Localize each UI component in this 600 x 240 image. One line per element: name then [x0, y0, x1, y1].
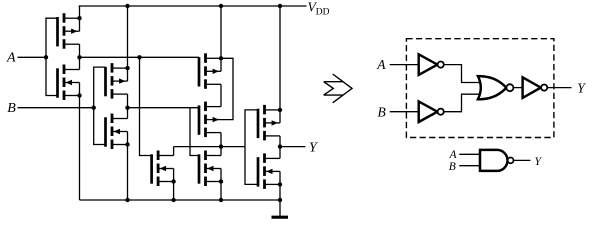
wire U1 output to NOR top input [444, 65, 479, 83]
junction P2 source-bulk junction [125, 66, 129, 70]
wire A to gates of P1/N1 [46, 18, 58, 95]
junction VDD-P2 tap [125, 4, 129, 8]
wire VDD drop to P2 source [127, 6, 129, 81]
wire node C to gates of P5/N5 [245, 110, 258, 184]
wire B to inverter U2 [390, 111, 419, 113]
junction A-bar branch junction [137, 55, 141, 59]
svg-text:B: B [378, 104, 386, 119]
wire VDD rail [79, 5, 307, 7]
wire B-bar branch down to N4 gate [190, 108, 199, 156]
wire U2 output to NOR bottom input [444, 94, 479, 112]
wire N1 source to ground [79, 83, 81, 201]
wire node C line [174, 146, 245, 148]
junction node B-bar [125, 106, 129, 110]
wire ground rail [80, 199, 281, 201]
junction P3 source-bulk junction [219, 56, 223, 60]
junction node Y [278, 144, 282, 148]
junction node B [92, 106, 96, 110]
wire Y output line (NAND) [514, 159, 531, 161]
wire P3 drain to P4 source [220, 84, 222, 106]
junction node A [44, 55, 48, 59]
wire A input lead [18, 56, 47, 58]
svg-text:Y: Y [577, 81, 586, 96]
junction N1 source-bulk junction [77, 93, 81, 97]
junction VDD-P3 tap [219, 4, 223, 8]
junction N2 source-bulk junction [125, 142, 129, 146]
wire P5 drain to Y to N5 drain [279, 136, 281, 159]
wire B to gates of P2/N2 [94, 67, 106, 144]
wire B-bar drain link P2-N2 [127, 94, 129, 118]
wire A to inverter U1 [390, 64, 419, 66]
wire A-bar branch down to N3 gate [140, 57, 152, 155]
wire B input lead [18, 107, 94, 109]
svg-text:B: B [7, 101, 16, 116]
wire VDD drop to P3 source [220, 6, 222, 71]
junction ground-N3 tap [171, 198, 175, 202]
wire A-bar drain link P1-N1 [79, 44, 81, 69]
transistor N4 (NMOS) [199, 151, 221, 187]
svg-text:Y: Y [309, 141, 319, 156]
wire N5 source to ground [279, 171, 281, 200]
wire A-bar node line to P3 gate [80, 56, 200, 58]
wire node C left drop to N3 drain [173, 147, 175, 156]
junction P5 source-bulk junction [278, 108, 282, 112]
transistor P3 (PMOS) [199, 53, 221, 89]
wire N3 source to ground [173, 169, 175, 201]
transistor N1 (NMOS) [58, 65, 80, 101]
junction P1 source-bulk junction [77, 16, 81, 20]
junction node C [219, 144, 223, 148]
junction N5 source-bulk junction [278, 182, 282, 186]
junction N3 source-bulk junction [171, 179, 175, 183]
junction ground-N5 tap [278, 198, 282, 202]
wire Y output line (gate diagram) [547, 87, 571, 89]
junction VDD-P5 tap [278, 4, 282, 8]
svg-text:B: B [449, 161, 456, 173]
junction N4 source-bulk junction [219, 179, 223, 183]
transistor P4 (PMOS) [199, 102, 221, 138]
transistor N3 (NMOS) [152, 151, 174, 187]
transistor N5 (NMOS) [258, 153, 280, 189]
NAND gate U5 [480, 150, 514, 171]
wire B-bar node line to P4 gate [128, 107, 200, 109]
wire A input to NAND [459, 153, 480, 155]
svg-text:A: A [6, 51, 16, 66]
inverter U1 [419, 54, 444, 75]
wire VDD drop to P1 source [79, 6, 81, 31]
wire N2 source to ground [127, 132, 129, 201]
junction node A-bar [77, 55, 81, 59]
wire VDD drop to P5 source [279, 6, 281, 123]
NOR gate U3 [478, 76, 514, 99]
junction ground-N4 tap [219, 198, 223, 202]
wire P4 drain down to node C [220, 133, 222, 156]
inverter U2 [419, 101, 444, 122]
transistor P2 (PMOS) [106, 63, 128, 99]
wire B input to NAND [459, 165, 480, 167]
transistor P1 (PMOS) [58, 13, 80, 49]
wire NOR output to inverter U4 [513, 87, 523, 89]
transistor N2 (NMOS) [106, 114, 128, 150]
junction ground-N2 tap [125, 198, 129, 202]
implies arrow symbol [324, 74, 352, 103]
svg-text:Y: Y [535, 156, 543, 168]
dashed box [406, 39, 554, 138]
transistor P5 (PMOS) [258, 105, 280, 140]
svg-text:A: A [376, 57, 386, 72]
svg-text:VDD: VDD [308, 0, 330, 18]
svg-text:A: A [449, 149, 458, 161]
inverter U4 [523, 77, 548, 98]
ground symbol [272, 200, 289, 217]
wire P4 bulk up to VDD at P3 source [221, 58, 233, 119]
wire N4 source to ground [220, 169, 222, 201]
wire Y output lead [280, 146, 305, 148]
